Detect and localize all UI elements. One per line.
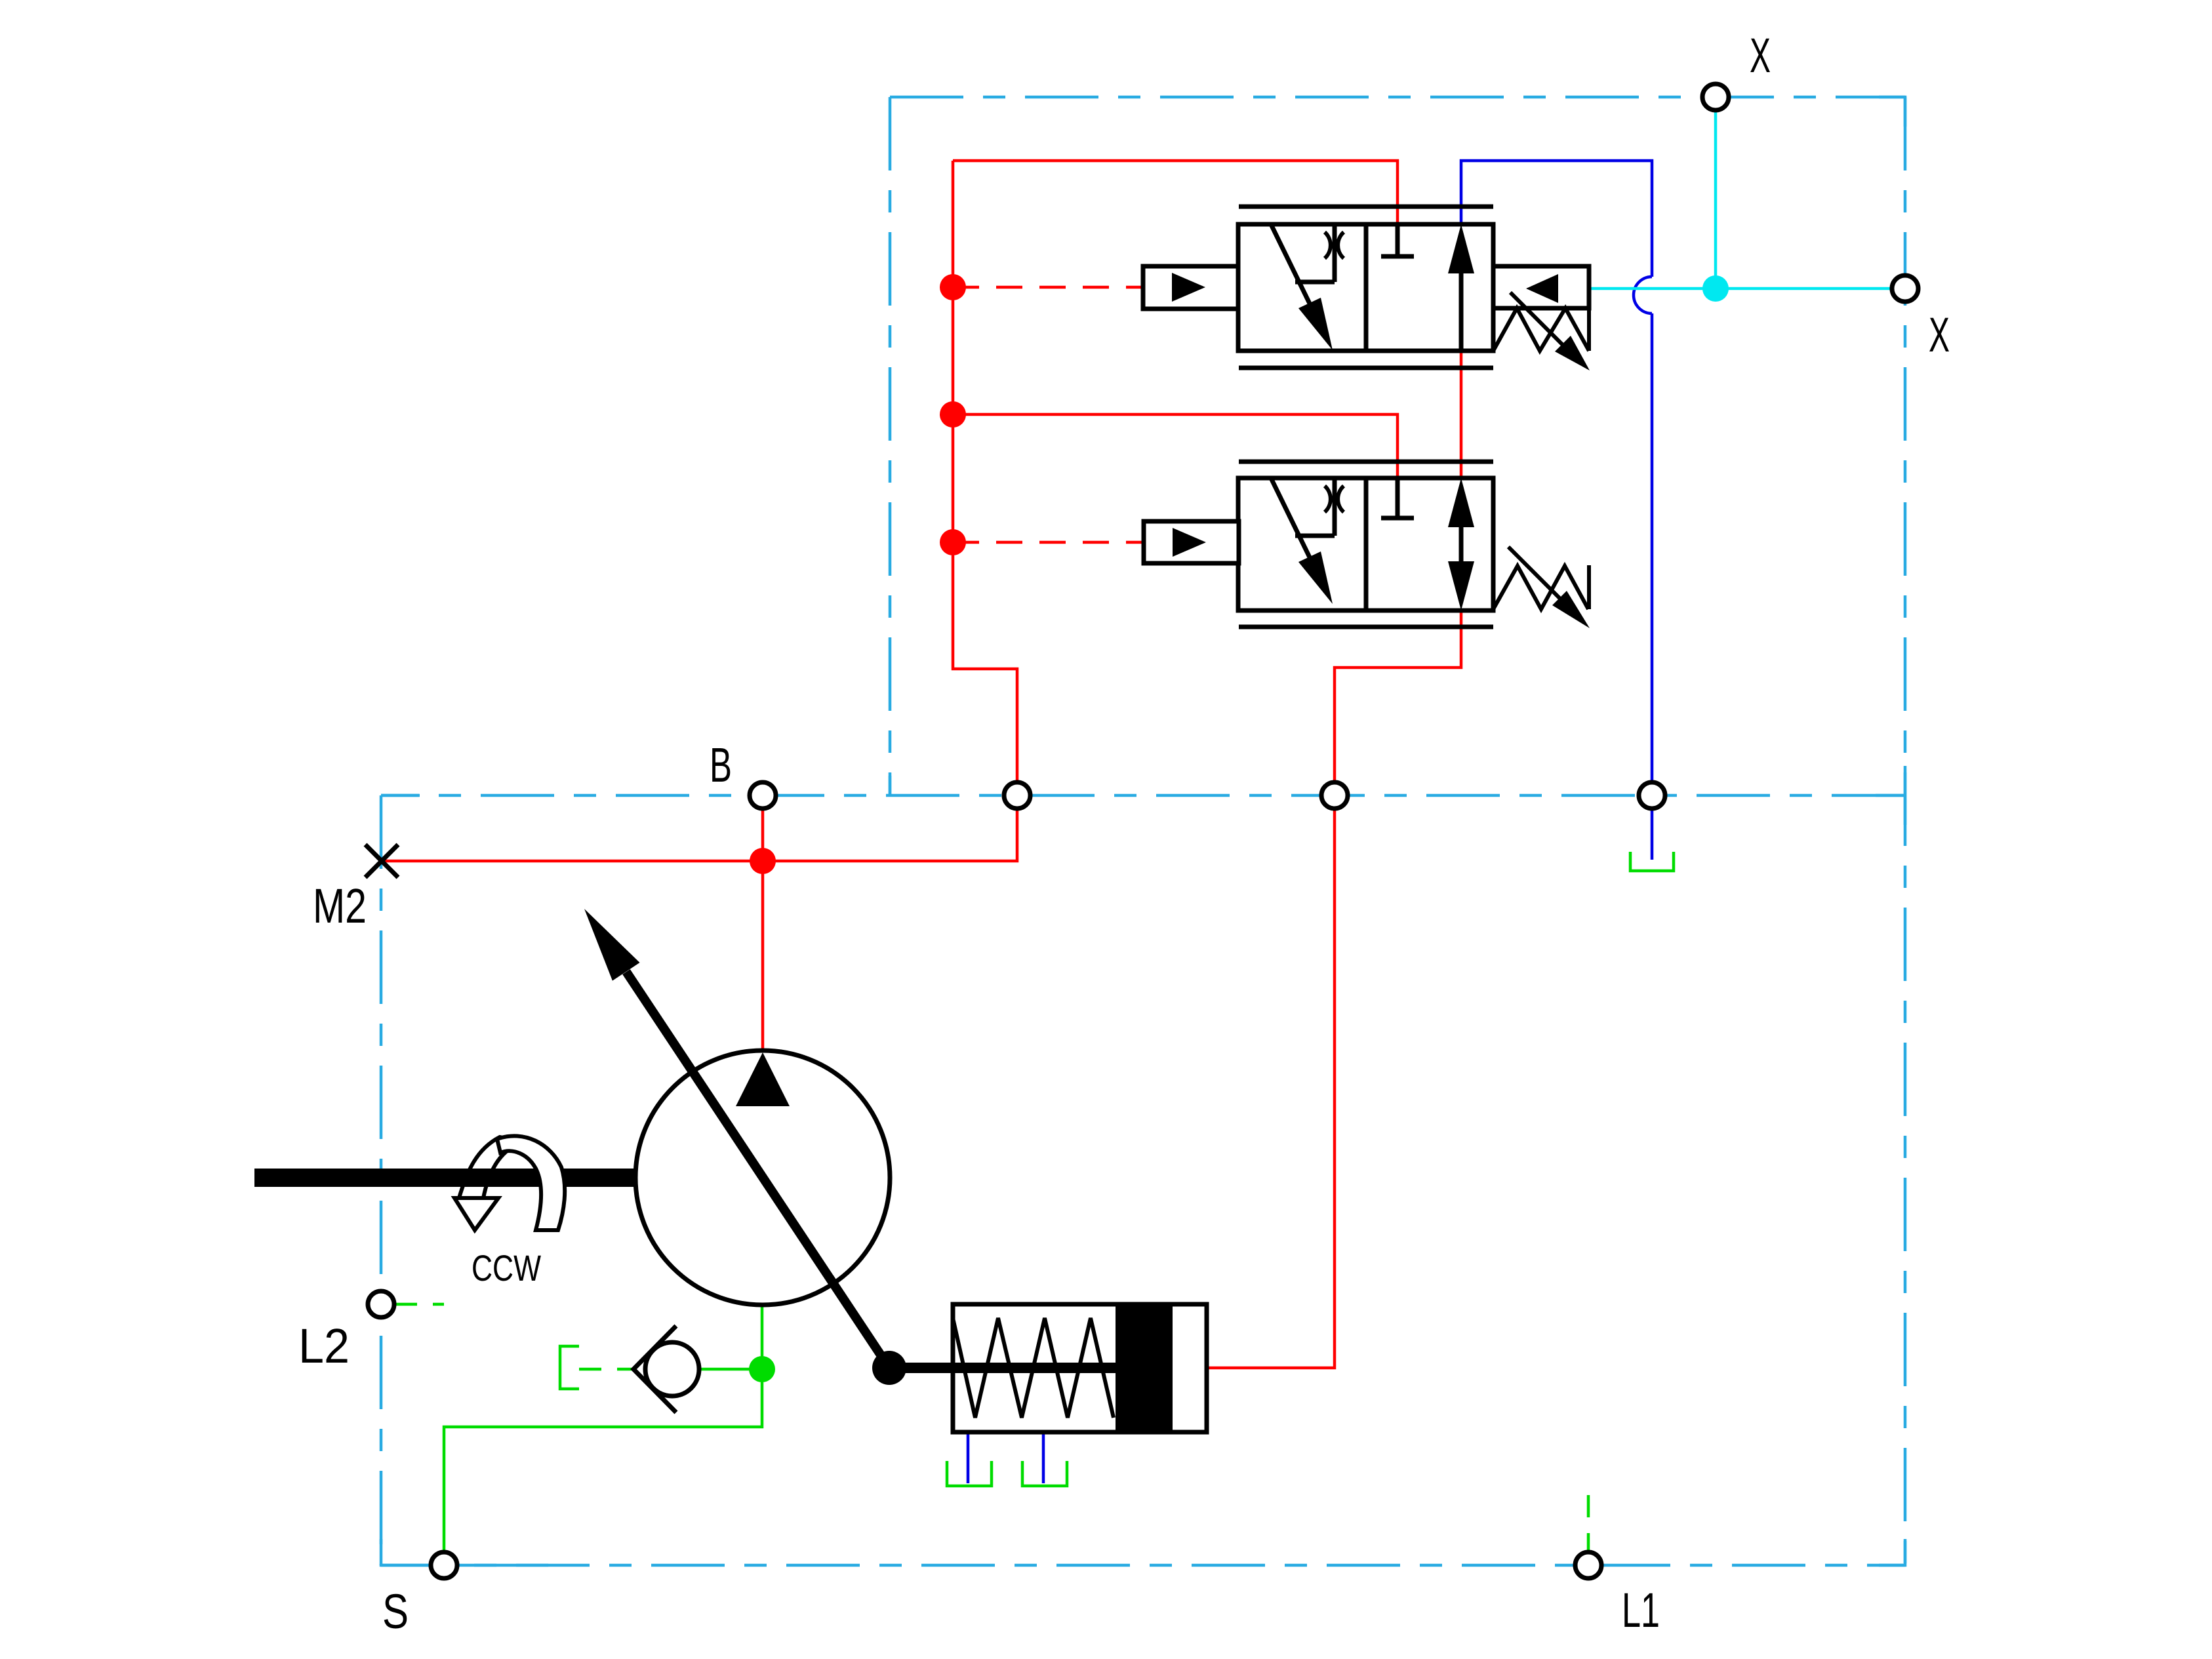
svg-text:M2: M2 xyxy=(313,879,367,933)
V2 blocked port T xyxy=(1381,479,1414,518)
cylinder spring xyxy=(953,1318,1114,1418)
port S xyxy=(431,1552,457,1578)
wire: envelope mid horizontal edge xyxy=(381,794,1905,797)
wire: green dashed L1 stub xyxy=(1587,1495,1590,1551)
V2 top rail xyxy=(1239,460,1493,464)
V2 pilot triangle xyxy=(1173,528,1206,557)
rotation arrow CCW ribbon (left limb, behind shaft) xyxy=(459,1137,523,1198)
wire: red V1 to V2 xyxy=(1460,351,1463,478)
V2 bottom rail xyxy=(1239,625,1493,630)
node: junction V2 pilot xyxy=(940,529,966,555)
wire: red trunk xyxy=(382,161,1017,861)
V1 orifice xyxy=(1325,232,1331,258)
pump P1 circle xyxy=(635,1050,890,1305)
wire: green pump case drain to S xyxy=(444,1306,762,1552)
wire: envelope corner solid patches xyxy=(381,97,1905,1565)
node: green junction xyxy=(749,1356,775,1382)
pump P1 outlet triangle xyxy=(736,1052,790,1106)
V1 compensator box xyxy=(1493,266,1589,308)
V2 spring xyxy=(1493,565,1589,609)
node: junction V1 pilot xyxy=(940,274,966,300)
wire: red feed to valve V2 xyxy=(952,414,1398,479)
svg-text:CCW: CCW xyxy=(472,1247,541,1289)
port (V2 line) xyxy=(1321,782,1348,809)
port L2 xyxy=(368,1291,394,1317)
piston rod xyxy=(889,1363,1152,1373)
cylinder body xyxy=(953,1304,1207,1432)
wire: aqua horizontal X line xyxy=(1588,287,1892,290)
port X top xyxy=(1702,84,1729,110)
V1 bottom rail xyxy=(1239,366,1493,370)
wire: red top feed to valve V1 xyxy=(953,161,1398,224)
rotation arrow CCW ribbon (right limb, in front of shaft) xyxy=(497,1136,565,1230)
V1 spring xyxy=(1493,308,1589,351)
port (drain line) xyxy=(1639,782,1665,809)
V1 pilot triangle xyxy=(1172,273,1205,302)
tank: blue drain tank xyxy=(1630,852,1674,871)
variable displacement arrow xyxy=(584,909,889,1368)
wire: envelope left lower edge xyxy=(380,795,383,1565)
svg-text:S: S xyxy=(382,1584,409,1639)
svg-text:L1: L1 xyxy=(1622,1583,1660,1637)
V2 up arrowhead xyxy=(1448,478,1474,527)
wire: envelope bottom edge xyxy=(381,1564,1905,1567)
svg-text:B: B xyxy=(710,738,732,792)
wire: red pilot dashed to V2 xyxy=(953,541,1144,544)
node: junction B/M2 xyxy=(750,848,776,874)
tank: cylinder drain tank left xyxy=(947,1461,992,1486)
port B xyxy=(750,782,776,809)
cylinder piston xyxy=(1116,1304,1173,1432)
V2 pilot box xyxy=(1144,521,1239,563)
V2 orifice xyxy=(1325,486,1331,512)
V2 body xyxy=(1238,478,1493,610)
wire: green check valve to junction xyxy=(699,1368,762,1371)
V1 compensator triangle xyxy=(1526,274,1558,303)
svg-text:X: X xyxy=(1750,28,1771,83)
port M2 plug cross xyxy=(365,845,398,877)
wire: envelope upper-left edge xyxy=(889,97,892,795)
tank: check valve inlet tank xyxy=(560,1346,579,1389)
pump shaft xyxy=(254,1169,635,1187)
wire: envelope right edge xyxy=(1904,97,1907,1565)
wire: blue cylinder drain left xyxy=(967,1432,970,1483)
node: junction V2 feed xyxy=(940,401,966,428)
V2 down arrowhead xyxy=(1448,561,1474,610)
check valve seat xyxy=(633,1326,676,1412)
check valve circle xyxy=(645,1342,699,1396)
V2 adjust arrow xyxy=(1508,547,1568,607)
wire: blue V1 top to drain column xyxy=(1461,161,1652,277)
port X right xyxy=(1892,275,1918,302)
rotation arrow CCW arrowhead xyxy=(454,1198,498,1230)
port (V1 line) xyxy=(1004,782,1030,809)
wire: blue cylinder drain right xyxy=(1042,1432,1045,1483)
wire: blue drain column to tank xyxy=(1651,313,1654,860)
svg-text:L2: L2 xyxy=(298,1319,350,1373)
wire: envelope top edge xyxy=(890,96,1905,99)
V2 metering arrowhead xyxy=(1298,551,1333,604)
V1 flow arrow line xyxy=(1459,269,1464,351)
V1 left box metering path xyxy=(1271,224,1311,306)
svg-text:X: X xyxy=(1929,308,1950,362)
wire: red pilot dashed to V1 xyxy=(953,286,1143,289)
V1 metering arrowhead xyxy=(1298,298,1333,350)
wire: green dashed L2 stub xyxy=(395,1303,444,1306)
wire: blue hop over cyan xyxy=(1634,277,1652,313)
V2 double arrow line xyxy=(1459,525,1464,564)
port L1 xyxy=(1575,1552,1601,1578)
wire: red V2 out to stroking piston xyxy=(1207,610,1461,1368)
V2 left box metering path xyxy=(1271,478,1311,560)
wire: aqua from X top port down xyxy=(1714,110,1718,289)
V1 adjust arrow xyxy=(1510,292,1574,356)
pivot xyxy=(872,1351,906,1385)
wire: red B port to pump xyxy=(761,809,765,1052)
node: aqua junction xyxy=(1702,275,1729,302)
V1 pilot box xyxy=(1143,266,1238,309)
wire: green dashed check valve inlet xyxy=(579,1368,635,1371)
V1 flow arrowhead xyxy=(1448,224,1474,273)
V1 top rail xyxy=(1239,205,1493,209)
V1 blocked port T xyxy=(1381,224,1414,256)
V1 body xyxy=(1238,224,1493,351)
tank: cylinder drain tank right xyxy=(1022,1461,1067,1486)
